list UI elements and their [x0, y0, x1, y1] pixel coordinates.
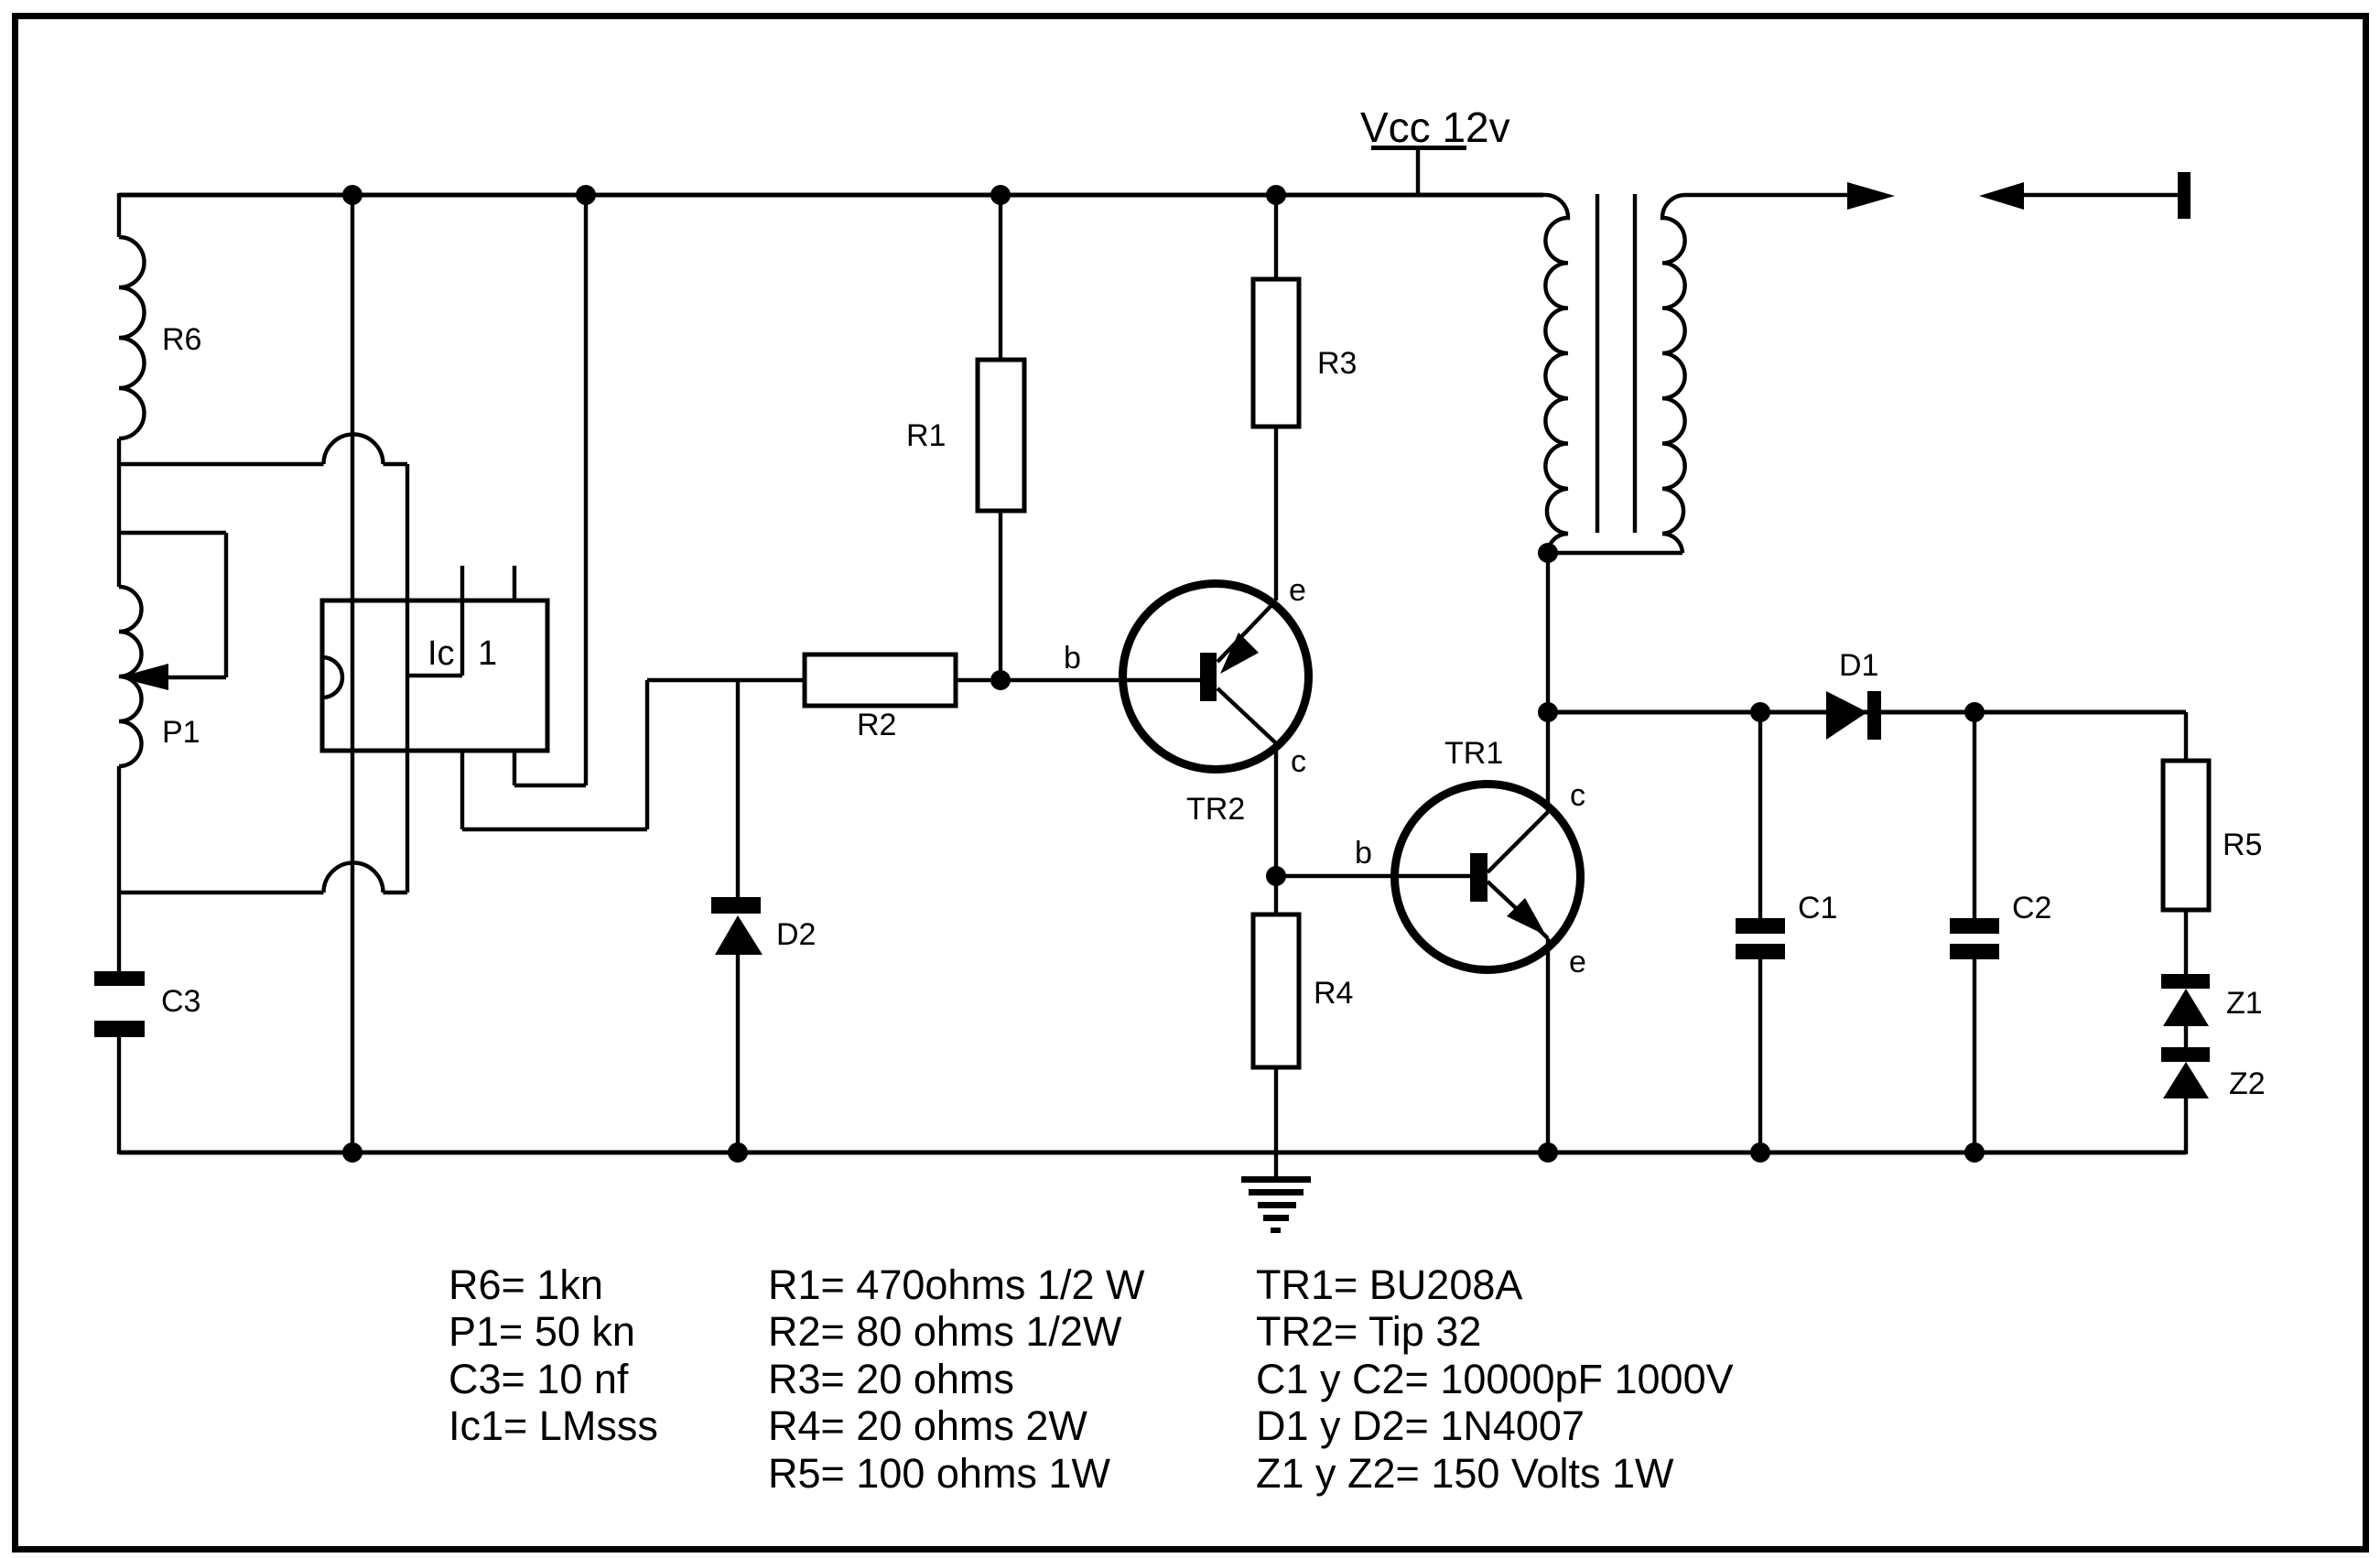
transformer primary winding — [1543, 195, 1568, 553]
legend column 2 — [768, 1261, 1145, 1497]
node junction dot top rail x1394 — [1266, 185, 1286, 205]
wire TR1 base — [1276, 874, 1474, 878]
svg-text:b: b — [1064, 641, 1081, 676]
resistor R2 — [805, 655, 956, 742]
resistor R4 — [1253, 876, 1353, 1179]
node junction dot top rail x640 — [576, 185, 596, 205]
wire top rail — [119, 193, 1543, 198]
node junction dot top rail x385 — [342, 185, 362, 205]
terminal bar — [2178, 172, 2191, 219]
wire transformer bottom — [1548, 551, 1682, 555]
svg-text:TR1: TR1 — [1444, 736, 1503, 771]
svg-text:Z2: Z2 — [2229, 1066, 2266, 1101]
svg-text:R1: R1 — [906, 418, 946, 453]
resistor R5 — [2163, 712, 2262, 974]
wire left vertical — [117, 193, 121, 237]
wire TR1 emitter vertical — [1546, 938, 1550, 1152]
return arrow left — [1979, 182, 2024, 210]
svg-text:R6: R6 — [162, 322, 201, 357]
wire IC1 output pin x505 to R2 — [462, 680, 805, 829]
svg-text:C1: C1 — [1798, 891, 1837, 925]
wire output node row — [1548, 710, 2186, 715]
svg-text:C3: C3 — [161, 984, 200, 1019]
wire P1 to lower hump — [117, 766, 121, 971]
svg-text:R6= 1kn: R6= 1kn — [449, 1261, 603, 1308]
svg-text:Z1: Z1 — [2226, 986, 2263, 1021]
P1 wiper arrow — [118, 664, 168, 690]
svg-text:D1 y D2= 1N4007: D1 y D2= 1N4007 — [1256, 1402, 1585, 1449]
IC1 pin stub top x505 — [460, 566, 464, 600]
transformer secondary winding — [1662, 195, 1685, 553]
svg-text:R4: R4 — [1314, 976, 1353, 1011]
diode D2 — [711, 680, 816, 1152]
svg-text:Ic: Ic — [427, 634, 455, 673]
svg-text:e: e — [1569, 945, 1586, 979]
node junction dot x2157 y778 — [1964, 702, 1985, 722]
transformer core — [1596, 194, 1599, 533]
svg-text:C2: C2 — [2012, 891, 2051, 925]
node junction dot bottom rail x1923 — [1750, 1142, 1770, 1163]
wire P1 wiper loop — [119, 533, 226, 677]
transistor TR2 — [1001, 573, 1309, 827]
svg-text:TR2: TR2 — [1186, 792, 1245, 827]
transistor TR1 — [1355, 736, 1586, 979]
node junction dot TR1 base — [1266, 866, 1286, 886]
node junction dot bottom rail x2157 — [1964, 1142, 1985, 1163]
output arrow right — [1847, 182, 1895, 210]
transformer T1 — [1538, 194, 1685, 563]
wire TR2 collector down to TR1 base node — [1274, 743, 1278, 876]
capacitor C1 — [1736, 712, 1837, 1152]
svg-text:R5: R5 — [2223, 828, 2262, 862]
wire vertical x385 top rail to bottom rail — [351, 195, 354, 1152]
svg-text:TR1= BU208A: TR1= BU208A — [1256, 1261, 1522, 1308]
zener diode Z1 — [2161, 974, 2263, 1047]
wire vertical x445 from hump down through IC to lower hump — [406, 464, 409, 893]
wire R2 to base node — [956, 678, 1001, 682]
svg-text:Z1 y Z2= 150 Volts 1W: Z1 y Z2= 150 Volts 1W — [1256, 1450, 1674, 1497]
node junction dot base TR2 — [990, 670, 1011, 690]
wire crossover hump at (386,507) — [119, 435, 407, 465]
svg-text:D2: D2 — [776, 917, 816, 952]
svg-text:P1: P1 — [162, 715, 200, 750]
capacitor C2 — [1950, 712, 2051, 1152]
svg-text:c: c — [1291, 744, 1306, 779]
node junction dot x1923 y778 — [1750, 702, 1770, 722]
svg-text:R3= 20 ohms: R3= 20 ohms — [768, 1356, 1014, 1402]
wire crossover hump at (386,975) — [119, 863, 407, 893]
wire return arrow to terminal — [2024, 193, 2178, 197]
svg-text:Ic1= LMsss: Ic1= LMsss — [449, 1402, 658, 1449]
svg-text:D1: D1 — [1839, 648, 1878, 683]
svg-text:R3: R3 — [1317, 346, 1357, 381]
svg-text:R1= 470ohms 1/2 W: R1= 470ohms 1/2 W — [768, 1261, 1145, 1308]
svg-text:R5= 100 ohms 1W: R5= 100 ohms 1W — [768, 1450, 1110, 1497]
svg-text:P1= 50 kn: P1= 50 kn — [449, 1308, 635, 1355]
wire TR1 collector vertical — [1546, 553, 1550, 812]
resistor R1 — [906, 195, 1024, 680]
svg-text:e: e — [1289, 573, 1306, 608]
node junction dot transformer bottom — [1538, 543, 1558, 563]
node junction dot top rail x1093 — [990, 185, 1011, 205]
node junction dot x1691 y778 — [1538, 702, 1558, 722]
svg-text:c: c — [1570, 778, 1585, 813]
svg-text:1: 1 — [478, 634, 497, 673]
legend column 3 — [1256, 1261, 1734, 1497]
svg-text:R2: R2 — [857, 708, 896, 742]
wire secondary to output arrow — [1685, 193, 1851, 197]
capacitor C3 — [94, 971, 200, 1037]
Vcc 12v supply label — [1360, 103, 1510, 195]
wire left vertical R6 to P1 — [117, 438, 121, 587]
node junction dot bottom rail x385 — [342, 1142, 362, 1163]
node junction dot bottom rail x806 — [728, 1142, 748, 1163]
svg-text:TR2= Tip 32: TR2= Tip 32 — [1256, 1308, 1481, 1355]
node junction dot bottom rail x1691 — [1538, 1142, 1558, 1163]
IC1 internal step wire — [407, 600, 462, 676]
svg-text:C1 y C2= 10000pF 1000V: C1 y C2= 10000pF 1000V — [1256, 1356, 1734, 1402]
zener diode Z2 — [2161, 1047, 2266, 1154]
resistor R3 — [1253, 195, 1357, 600]
wire bottom rail — [119, 1151, 2186, 1155]
IC1 pin stub top x562 — [513, 566, 516, 600]
IC IC1 — [322, 600, 547, 751]
inductor R6 — [119, 237, 201, 438]
wire IC1 pin x562 to x640 vertical — [514, 195, 586, 785]
svg-text:b: b — [1355, 836, 1372, 871]
svg-text:C3= 10 nf: C3= 10 nf — [449, 1356, 629, 1402]
svg-text:R4= 20 ohms 2W: R4= 20 ohms 2W — [768, 1402, 1087, 1449]
legend column 1 — [449, 1261, 658, 1449]
diode D1 — [1826, 648, 1881, 740]
svg-text:R2= 80 ohms 1/2W: R2= 80 ohms 1/2W — [768, 1308, 1122, 1355]
potentiometer P1 — [119, 587, 200, 766]
ground — [1241, 1176, 1311, 1233]
wire C3 to bottom rail — [117, 1037, 121, 1154]
svg-text:Vcc 12v: Vcc 12v — [1360, 103, 1510, 151]
